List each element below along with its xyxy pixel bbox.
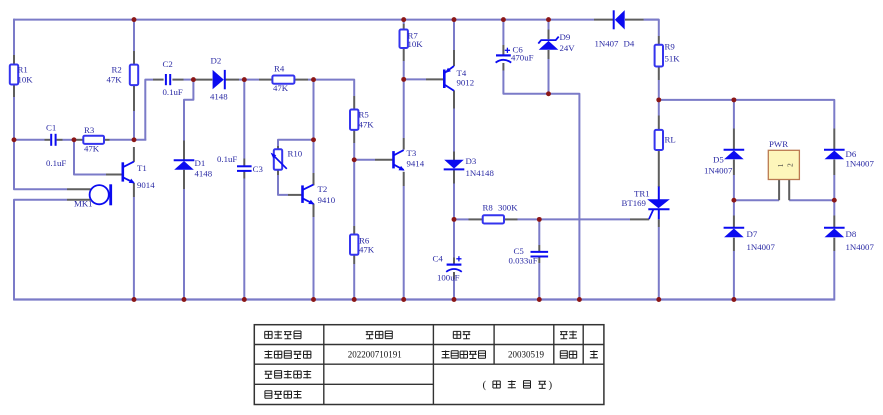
diode D8 1N4007 [824,227,845,229]
resistor RL [655,130,663,150]
wire node to R6 top [353,160,355,226]
pin R7 leads [403,24,405,30]
wire R7 bottom to T4 base node [403,61,405,80]
wire C1 row [14,139,45,141]
diode D5 1N4007 [724,149,745,151]
pin R2 leads [133,51,135,65]
pin D6 leads [833,129,835,150]
capacitor C2 [165,74,167,85]
pin D9 leads [548,30,550,40]
wire D7 top lead [733,199,735,215]
pin MK1 leads [67,188,91,190]
wire C6 bottom elbow to negative rail [503,71,579,300]
capacitor C6 electrolytic [496,54,511,56]
wire R4 node down to T2 collector [313,79,315,173]
zener diode D9 24V [538,37,558,44]
table text 成绩 [560,332,568,339]
svg-text:R9: R9 [665,42,676,52]
wire T4 collector to D3 [453,109,455,152]
svg-text:100uF: 100uF [437,273,460,283]
transistor T3 9414 NPN [392,151,395,168]
wire C3 bottom to ground bus [243,179,245,300]
svg-text:D2: D2 [211,56,222,66]
wire C2 left elbow [145,80,153,140]
pin R5 leads [353,96,355,110]
pin R8 leads [469,218,483,220]
svg-text:1N4148: 1N4148 [466,168,495,178]
pin PWR leads [778,180,780,200]
wire D7 anode to ground bus [733,251,735,300]
wire R9 bottom to rail node [658,80,660,101]
svg-text:2: 2 [786,163,795,167]
svg-text:T2: T2 [318,184,328,194]
svg-text:RL: RL [665,135,676,145]
pin T4 leads [426,78,444,80]
svg-text:D3: D3 [466,156,477,166]
wire TR1 cathode to ground bus [658,227,660,300]
wire C5 bottom to ground bus [538,263,540,300]
pin D8 leads [833,216,835,228]
svg-text:47K: 47K [273,83,289,93]
pin D5 leads [733,129,735,150]
resistor R1 [10,65,18,85]
svg-text:C5: C5 [514,246,525,256]
svg-text:C4: C4 [433,254,444,264]
svg-text:47K: 47K [359,120,375,130]
svg-text:47K: 47K [107,74,123,84]
pin C1 leads [45,139,51,141]
wire C2 right to D2 node [184,79,195,81]
table text 男 [590,350,598,358]
svg-text:9410: 9410 [318,195,336,205]
svg-text:D8: D8 [846,229,857,239]
svg-text:R1: R1 [18,64,28,74]
wire D3 cathode to R8 node [453,184,455,221]
wire PWR pin2 to right bridge node [789,199,835,201]
svg-text:D9: D9 [560,32,571,42]
wire right rail to D6 [658,100,835,129]
diode D1 4148 [174,159,195,161]
wire microphone loop lower [14,200,67,301]
wire T4 emitter to top bus [453,19,455,50]
svg-text:R10: R10 [288,149,303,159]
capacitor C4 electrolytic [447,264,462,266]
capacitor C3 [237,165,252,167]
capacitor C1 [50,134,52,146]
pin D4 leads [594,19,613,21]
wire D2 cathode to R4 node [239,79,245,81]
wire C5 top lead [538,218,540,245]
table text 考生姓名 [265,331,272,338]
wire T2 emitter to ground bus [313,217,315,300]
svg-text:0.1uF: 0.1uF [46,158,66,168]
transistor T1 9014 NPN [122,162,125,181]
svg-text:D6: D6 [846,149,857,159]
svg-text:20030519: 20030519 [508,350,545,360]
svg-text:0.1uF: 0.1uF [163,87,183,97]
table text 许顺铭 [366,332,374,339]
wire C4 bottom to ground bus [453,280,455,300]
wire R2 bottom to node [133,111,135,141]
wire C2 node jog down to D1 [184,79,193,141]
wire R4 row to R5 [244,79,259,81]
wire top supply bus [14,19,594,21]
svg-text:BT169: BT169 [622,198,647,208]
svg-text:51K: 51K [665,54,681,64]
diode D2 4148 [213,70,224,89]
svg-text:1: 1 [776,163,785,167]
resistor R6 [350,235,358,255]
pin TR1 leads [658,219,660,227]
table text 身份证号码 [265,371,273,378]
svg-text:R3: R3 [84,125,95,135]
diode D7 1N4007 [724,227,745,229]
table text 出生年月日 [442,350,450,358]
svg-text:24V: 24V [560,43,576,53]
svg-text:PWR: PWR [769,139,788,149]
wire D9 top lead [548,19,550,30]
svg-text:0.1uF: 0.1uF [217,154,237,164]
svg-text:C2: C2 [163,59,173,69]
svg-text:D5: D5 [713,155,724,165]
power plug PWR [768,150,799,179]
potentiometer R10 [274,149,282,170]
svg-text:1N4007: 1N4007 [846,242,875,252]
pin T3 leads [375,159,393,161]
pin D7 leads [733,216,735,228]
wire C3 top lead [243,79,245,159]
wire R1 bottom to C1 node [13,97,15,141]
svg-text:47K: 47K [84,144,100,154]
svg-text:0.033uF: 0.033uF [509,256,538,266]
pin C4 leads [453,258,455,265]
svg-text:R5: R5 [359,110,370,120]
svg-text:R4: R4 [274,64,285,74]
wire D9 anode to rail [548,59,550,95]
capacitor C5 [531,251,549,253]
svg-text:T3: T3 [407,148,417,158]
pin D2 leads [194,79,212,81]
pin D1 leads [183,141,185,160]
wire C6 top lead [502,19,504,45]
pin R10 leads [277,146,279,149]
svg-text:): ) [549,379,553,391]
svg-text:202200710191: 202200710191 [348,350,402,360]
svg-text:MK1: MK1 [74,199,93,209]
svg-text:(: ( [483,379,487,391]
svg-text:C1: C1 [46,123,56,133]
resistor R2 [130,65,138,86]
svg-text:470uF: 470uF [511,53,534,63]
resistor R9 [655,45,663,67]
wire RL to TR1 anode [658,150,660,187]
svg-text:4148: 4148 [210,92,228,102]
wire microphone loop upper [14,139,67,189]
wire TR1 gate [629,218,630,220]
svg-text:TR1: TR1 [634,188,650,198]
svg-text:1N4007: 1N4007 [747,242,776,252]
pin R9 leads [658,36,660,45]
wire D4 cathode corner to R9 [644,20,659,36]
pin R1 leads [13,55,15,65]
wire rail node to RL top [658,100,660,116]
svg-text:1N407: 1N407 [595,39,620,49]
pin C5 leads [538,245,540,251]
table text 题号 [453,331,460,338]
wire PWR pin1 to left bridge node [733,199,779,201]
wire D5 anode to bridge node [733,175,735,201]
wire R2 top lead [133,19,135,51]
svg-text:300K: 300K [498,203,518,213]
pin C3 leads [243,159,245,166]
svg-text:T4: T4 [457,68,467,78]
table text 准考证号码 [264,350,272,358]
pin T2 leads [288,194,302,196]
wire T3 base from node [353,159,375,161]
svg-text:47K: 47K [359,244,375,254]
svg-text:10K: 10K [408,39,424,49]
table text 评卷姓名 [265,391,272,399]
resistor R3 [83,136,104,144]
resistor R7 [400,30,408,49]
microphone MK1 [90,185,109,204]
resistor R5 [350,110,358,130]
pin T1 leads [106,174,122,176]
wire T1 base elbow [74,140,106,175]
wire D8 anode to ground bus [833,251,835,301]
thyristor TR1 BT169 [647,199,670,208]
wire left supply drop to R1 [13,19,15,55]
svg-text:D1: D1 [195,158,206,168]
wire bottom ground bus [14,298,834,300]
svg-text:1N4007: 1N4007 [704,166,733,176]
wire R8 node to C4 [453,219,455,257]
table grid [254,325,604,405]
wire R5 bottom to node [353,143,355,161]
resistor R4 [272,76,294,84]
svg-text:9414: 9414 [407,159,425,169]
junction dots top bus [132,17,137,22]
pin R3 leads [77,139,84,141]
svg-text:4148: 4148 [195,169,213,179]
wire R10 bottom to T2 base [278,175,288,195]
svg-text:9012: 9012 [457,78,475,88]
wire R8 row [453,218,469,220]
svg-text:1N4007: 1N4007 [846,159,875,169]
svg-text:9014: 9014 [137,180,155,190]
wire node down to T3 collector [403,78,405,138]
svg-text:10K: 10K [18,74,34,84]
transistor T4 9012 PNP [443,70,446,89]
pin C2 leads [153,79,164,81]
wire R10 branch [278,140,315,146]
table text 性别 [560,351,567,359]
wire T4 base from node [403,78,426,80]
transistor T2 9410 NPN [301,185,304,203]
pin RL leads [658,116,660,130]
diode D3 1N4148 [444,168,465,170]
wire D1 anode to ground bus [183,189,185,300]
junction dots mid nodes [191,77,196,82]
wire R6 bottom to ground bus [353,264,355,300]
wire D6 anode to bridge node [833,175,835,201]
svg-text:D4: D4 [624,39,635,49]
wire R7 top lead [403,19,405,24]
svg-text:D7: D7 [747,229,758,239]
wire D8 top lead [833,199,835,215]
pin R6 leads [353,226,355,235]
svg-text:R8: R8 [483,203,494,213]
svg-text:R2: R2 [112,64,122,74]
svg-text:C3: C3 [253,164,264,174]
svg-text:T1: T1 [137,163,147,173]
diode D4 1N407 [613,10,615,29]
wire D5 top lead [733,99,735,129]
junction dots ground bus [132,297,137,302]
wire T3 emitter to ground bus [403,186,405,300]
pin T1 emitter wire [133,197,135,300]
pin R4 leads [259,79,272,81]
diode D6 1N4007 [824,149,845,151]
pin C6 leads [502,45,504,55]
resistor R8 [483,215,504,223]
pin D3 leads [453,152,455,161]
